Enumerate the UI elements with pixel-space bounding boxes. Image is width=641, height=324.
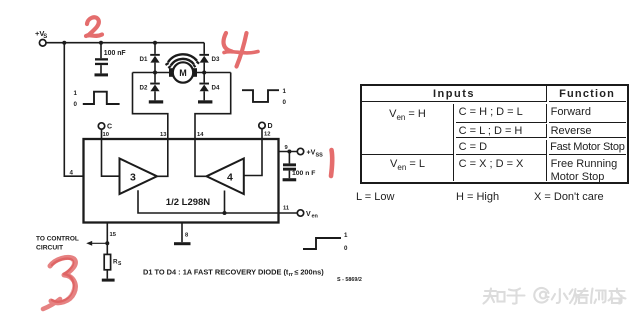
resistor Rs [104, 254, 110, 269]
pin 13 label [160, 132, 167, 138]
wire pin 8 [181, 223, 183, 243]
wire pin 15 [106, 223, 108, 255]
svg-text:8: 8 [185, 233, 189, 239]
node bridge left mid [153, 71, 157, 75]
label D1 [140, 56, 148, 63]
red annotation 2 [86, 17, 102, 36]
wire pin4 supply drop [64, 43, 83, 177]
IC box 1/2 L298N [84, 139, 279, 223]
node pin15 junction [105, 241, 109, 245]
truth table [360, 84, 629, 184]
svg-text:D2: D2 [140, 85, 148, 92]
red annotation 1 [331, 150, 332, 176]
svg-text:S: S [43, 34, 47, 40]
wire bridge right leg top [203, 43, 205, 54]
op-amp 3 [120, 159, 158, 195]
label 0 (C waveform) [74, 101, 78, 108]
waveform D input pulse [242, 90, 279, 102]
svg-text:0: 0 [283, 99, 287, 106]
wire top supply rail [46, 42, 204, 44]
ground Rs [102, 279, 115, 282]
label TO CONTROL CIRCUIT [36, 235, 79, 251]
ground D4 [198, 100, 212, 103]
label 100nF [104, 50, 126, 57]
svg-text:15: 15 [110, 232, 117, 238]
label 0 (Ven waveform) [344, 245, 348, 252]
label D [268, 123, 273, 130]
svg-text:D1 TO D4 : 1A FAST RECOVERY DI: D1 TO D4 : 1A FAST RECOVERY DIODE (t [143, 267, 289, 276]
label 0 (D waveform) [283, 99, 287, 106]
table legend [356, 191, 636, 203]
node enable junction [223, 211, 227, 215]
svg-text:4: 4 [70, 170, 74, 177]
wire to control circuit arrow [86, 241, 107, 246]
svg-text:M: M [179, 68, 187, 78]
svg-text:D: D [268, 123, 273, 130]
label D2 [140, 85, 148, 92]
capacitor C1 100nF [95, 43, 108, 74]
terminal +Vss [297, 148, 303, 154]
wire motor left [133, 72, 170, 74]
label 1 (C waveform) [74, 90, 78, 97]
label +Vss [307, 149, 324, 158]
pin 14 label [197, 132, 204, 138]
pin 10 label [103, 132, 109, 138]
svg-text:0: 0 [74, 101, 78, 108]
ground pin 8 [174, 242, 191, 245]
label C [107, 124, 112, 131]
svg-text:11: 11 [283, 206, 290, 212]
label D3 [212, 56, 220, 63]
svg-text:D1: D1 [140, 56, 148, 63]
red annotation 3 [43, 257, 75, 309]
svg-text:en: en [312, 213, 319, 219]
red annotation 4 [224, 33, 258, 67]
waveform C input pulse [83, 92, 120, 104]
svg-text:0: 0 [344, 245, 348, 252]
diode D2 [150, 73, 160, 101]
wire C to amp3 input [102, 129, 120, 176]
svg-text:1: 1 [344, 232, 348, 239]
wire amp3 output to pin13 [157, 139, 168, 176]
svg-text:4: 4 [227, 171, 233, 183]
op-amp 4 [207, 159, 244, 195]
ground D2 [149, 100, 163, 103]
label Rs [113, 258, 122, 267]
label 1 (D waveform) [283, 88, 287, 95]
watermark zhihu [484, 288, 626, 304]
svg-text:D4: D4 [212, 85, 220, 92]
wire bridge left leg top [154, 43, 156, 54]
terminal Ven [297, 210, 303, 216]
pin 12 label [264, 132, 270, 138]
terminal +Vs [39, 40, 46, 47]
ground C2 [283, 178, 297, 181]
wire motor right [197, 72, 231, 74]
svg-text:3: 3 [130, 171, 136, 183]
node junction Vs-C1 [99, 41, 103, 45]
svg-text:13: 13 [160, 132, 167, 138]
waveform Ven step [303, 238, 341, 249]
wire D to amp4 input [244, 129, 262, 176]
svg-text:100 nF: 100 nF [104, 50, 126, 57]
terminal D [259, 122, 265, 128]
terminal C [98, 123, 104, 129]
node junction Vs-D1 [153, 41, 157, 45]
label 1/2 L298N [166, 197, 210, 208]
svg-text:1/2 L298N: 1/2 L298N [166, 197, 210, 208]
wire pin9 to Vss [279, 151, 298, 153]
svg-text:S: S [118, 261, 122, 267]
svg-text:V: V [306, 211, 311, 218]
pin 4 label [70, 170, 74, 177]
node junction Vs-pin4 [62, 41, 66, 45]
wire bridge right drop [195, 73, 231, 140]
diode D4 [199, 73, 209, 101]
wire pin14 to amp4 output [195, 139, 207, 176]
wire Rs to ground [106, 270, 108, 279]
label Ven [306, 211, 319, 220]
motor M1 [169, 62, 197, 82]
label 1 (Ven waveform) [344, 232, 348, 239]
diode D1 [150, 54, 160, 73]
note S-5869/2 [337, 277, 362, 283]
capacitor C2 100nF [283, 152, 296, 179]
pin 11 label [283, 206, 290, 212]
svg-text:S - 5869/2: S - 5869/2 [337, 277, 362, 283]
svg-text:+V: +V [307, 149, 316, 156]
svg-text:SS: SS [316, 153, 324, 159]
note D1 TO D4 fast recovery diode [143, 267, 324, 278]
svg-text:100 n F: 100 n F [292, 170, 315, 177]
pin 15 label [110, 232, 117, 238]
svg-text:1: 1 [283, 88, 287, 95]
svg-text:C: C [107, 124, 112, 131]
svg-text:D3: D3 [212, 56, 220, 63]
label 100 n F [292, 170, 315, 177]
diode D3 [199, 54, 209, 73]
svg-text:14: 14 [197, 132, 204, 138]
ground C1 [95, 73, 109, 76]
node bridge right mid [202, 71, 206, 75]
pin 8 label [185, 233, 189, 239]
svg-text:9: 9 [285, 145, 289, 151]
node Vss junction [287, 150, 291, 154]
motor rotation arrows [166, 54, 200, 68]
label +Vs [35, 29, 47, 40]
svg-text:10: 10 [103, 132, 109, 138]
wire enable net [138, 190, 297, 213]
wire amp4 enable drop [224, 191, 226, 214]
svg-text:1: 1 [74, 90, 78, 97]
svg-text:TO CONTROL: TO CONTROL [36, 235, 79, 242]
label D4 [212, 85, 220, 92]
svg-text:≤ 200ns): ≤ 200ns) [294, 267, 325, 276]
pin 9 label [285, 145, 289, 151]
wire bridge left drop [133, 73, 168, 140]
svg-text:12: 12 [264, 132, 270, 138]
svg-text:CIRCUIT: CIRCUIT [36, 244, 64, 251]
